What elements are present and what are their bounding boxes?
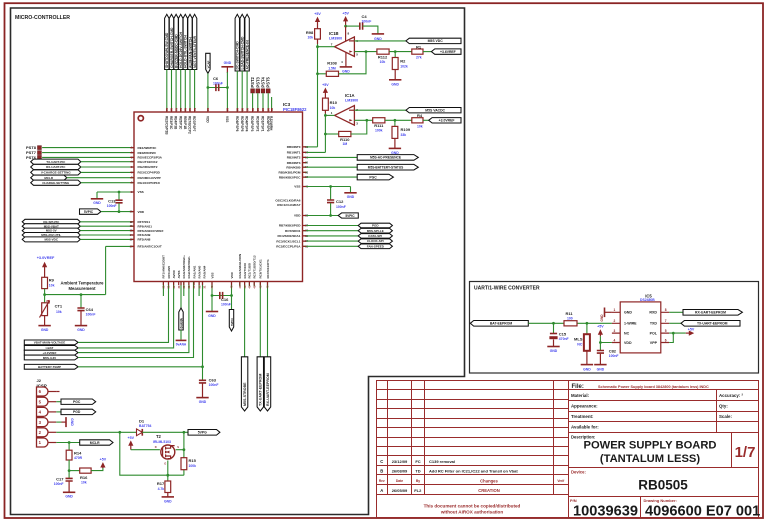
svg-text:C: C: [380, 459, 383, 464]
svg-text:RD3/PSP3: RD3/PSP3: [250, 116, 254, 132]
wire VDD: [600, 336, 612, 350]
svg-text:Available for:: Available for:: [571, 424, 599, 429]
connector pin 5: [37, 397, 49, 406]
svg-text:RJ2/WRH: RJ2/WRH: [269, 116, 273, 131]
svg-text:RA1/AN1: RA1/AN1: [192, 265, 196, 278]
svg-text:RB6/KBI2/PGC: RB6/KBI2/PGC: [279, 175, 301, 179]
wire VSS bottom: [211, 282, 213, 312]
wire: [241, 71, 243, 112]
flag +3.0VREF: [24, 350, 78, 355]
svg-text:RD6/PSP6: RD6/PSP6: [235, 116, 239, 132]
wire: [236, 71, 238, 112]
svg-text:RA5/AN4: RA5/AN4: [203, 265, 207, 278]
wire: [78, 282, 193, 358]
junction: [118, 431, 121, 434]
svg-text:File:: File:: [572, 384, 584, 390]
svg-text:RF1/AN6/C2OUT: RF1/AN6/C2OUT: [162, 255, 166, 279]
junction: [183, 431, 186, 434]
svg-text:BAT-EEPROM: BAT-EEPROM: [490, 322, 513, 326]
svg-text:RE0/RD/P2D: RE0/RD/P2D: [138, 151, 157, 155]
flag 5VPIC right: [303, 215, 339, 217]
wire left branch down: [120, 432, 184, 475]
wire minus input to flag: [354, 40, 406, 42]
svg-text:MICRO-CONTROLLER: MICRO-CONTROLLER: [15, 15, 70, 21]
svg-text:+5V: +5V: [688, 328, 695, 332]
svg-text:GND: GND: [583, 367, 591, 371]
svg-text:102k: 102k: [400, 64, 408, 68]
svg-text:T2: T2: [156, 434, 162, 439]
svg-text:SHUTDOWN-SW-CMD: SHUTDOWN-SW-CMD: [165, 32, 169, 68]
svg-text:R16: R16: [80, 475, 88, 480]
svg-text:CHARGER-SWITCH-CMD: CHARGER-SWITCH-CMD: [170, 27, 174, 68]
svg-text:470nF: 470nF: [559, 337, 569, 341]
flag 5VPG: [188, 430, 220, 436]
svg-text:RC2/ECCP1/P1A: RC2/ECCP1/P1A: [276, 245, 301, 249]
junction: [118, 191, 121, 194]
svg-text:RD2/PSP2: RD2/PSP2: [255, 116, 259, 132]
ground at VSS right: [350, 187, 352, 193]
svg-text:RF0/AN5: RF0/AN5: [167, 266, 171, 279]
svg-text:PIC18F8622: PIC18F8622: [283, 107, 307, 112]
flag DATA-SPI: [303, 235, 359, 237]
flag RX-UART-EEPROM vertical: [264, 357, 270, 411]
svg-text:PGC: PGC: [369, 175, 377, 179]
wire pin6 nc stub: [56, 391, 59, 393]
svg-text:100nF: 100nF: [209, 383, 219, 387]
power +5V arrow right: [686, 332, 690, 334]
svg-text:26/08/09: 26/08/09: [392, 469, 408, 474]
svg-text:VSS: VSS: [138, 190, 144, 194]
svg-text:C63: C63: [209, 377, 217, 382]
ground under R2: [394, 70, 396, 80]
svg-text:G: G: [164, 462, 166, 466]
svg-text:VDD: VDD: [294, 214, 301, 218]
flag FAN-SPEED: [303, 245, 359, 247]
svg-text:MOT-VENTILATEUR: MOT-VENTILATEUR: [193, 35, 197, 68]
resistor R16 10k: [69, 470, 80, 472]
svg-text:MLS: MLS: [574, 336, 583, 341]
svg-text:IC1B: IC1B: [329, 31, 339, 36]
junction: [365, 50, 368, 53]
junction: [211, 294, 214, 297]
ic IC5 DS2480B: [620, 302, 661, 353]
svg-text:S: S: [177, 445, 179, 449]
svg-text:GND: GND: [624, 311, 632, 315]
svg-text:GND: GND: [550, 349, 558, 353]
svg-text:+3.6VREF: +3.6VREF: [440, 50, 456, 54]
svg-text:GND: GND: [597, 367, 605, 371]
ground under C63: [202, 383, 204, 397]
svg-text:This document cannot be copied: This document cannot be copied/distribut…: [424, 503, 521, 508]
flag M5S-26V-UTIL: [22, 233, 80, 238]
capacitor C6 100nF: [208, 87, 228, 89]
flag MCLR: [80, 440, 113, 445]
svg-text:GND: GND: [65, 495, 73, 499]
svg-text:C15: C15: [559, 331, 567, 336]
svg-text:R15: R15: [189, 458, 197, 463]
svg-text:RX-UART-EEPROM: RX-UART-EEPROM: [266, 373, 270, 406]
wire: [78, 282, 202, 367]
svg-text:Date: Date: [396, 479, 403, 483]
svg-text:M5S-VDC: M5S-VDC: [44, 238, 58, 242]
flag RX-UART-EEPROM: [669, 311, 683, 313]
svg-text:Measurement: Measurement: [69, 286, 97, 291]
svg-text:5VPG: 5VPG: [198, 431, 207, 435]
flag M5S-BATTERY-STATUS: [303, 166, 358, 168]
wire minus input to flag: [354, 109, 406, 111]
svg-text:GND: GND: [391, 82, 399, 86]
wire RB1 to comparator IC1A output: [303, 151, 326, 153]
flag VCAP short: [206, 53, 210, 73]
junction: [672, 332, 675, 335]
flag ALIM-FAN-SWITCH vertical: [188, 14, 192, 69]
svg-text:RE6/P1B: RE6/P1B: [183, 116, 187, 130]
wire: [78, 282, 174, 348]
capacitor C12 100nF: [330, 187, 332, 200]
svg-text:R112: R112: [378, 54, 388, 59]
svg-text:FC: FC: [415, 459, 420, 464]
wire: [262, 93, 264, 112]
resistor R9 10k: [42, 277, 48, 288]
svg-text:A: A: [380, 488, 383, 493]
flag M5S-3.3V: [24, 355, 78, 360]
svg-text:100: 100: [567, 316, 573, 320]
svg-text:RG2/RX2/DT2: RG2/RX2/DT2: [138, 165, 158, 169]
svg-text:V-CHARGE-SETTING: V-CHARGE-SETTING: [41, 171, 72, 175]
svg-text:RF3/AN8: RF3/AN8: [138, 238, 151, 242]
svg-text:RE4/P3B: RE4/P3B: [174, 116, 178, 130]
svg-text:AC-PRESENCE-IN: AC-PRESENCE-IN: [246, 40, 250, 70]
svg-text:+3.0VREF: +3.0VREF: [439, 119, 455, 123]
svg-text:2: 2: [614, 319, 616, 323]
flag TX-UART-EEPROM: [669, 322, 681, 324]
svg-text:RF4/AN9: RF4/AN9: [138, 233, 151, 237]
svg-text:RF7/SS1: RF7/SS1: [138, 220, 151, 224]
svg-text:RG4/CCP5/P1D: RG4/CCP5/P1D: [138, 181, 161, 185]
wire right branch through R15: [183, 432, 185, 475]
svg-text:Appearance:: Appearance:: [571, 403, 598, 408]
svg-text:DS2480B: DS2480B: [640, 298, 655, 302]
flag PGD at pin4: [56, 411, 61, 413]
svg-text:Rev: Rev: [379, 479, 385, 483]
svg-text:POL: POL: [650, 332, 658, 336]
capacitor C15 470nF polarized: [553, 323, 555, 333]
svg-text:VDD: VDD: [138, 210, 145, 214]
flag VBAT-VOLTAGE: [24, 340, 78, 345]
svg-text:RC7/RX1/DT1: RC7/RX1/DT1: [266, 259, 270, 279]
svg-text:GND: GND: [41, 328, 49, 332]
svg-text:10k: 10k: [49, 284, 55, 288]
svg-text:4: 4: [614, 338, 616, 342]
svg-text:LM3900: LM3900: [329, 36, 342, 40]
varistor MLS NC: [586, 323, 588, 334]
svg-text:M5S-AC-PRESENCE: M5S-AC-PRESENCE: [370, 156, 401, 160]
junction: [183, 448, 186, 451]
svg-text:+5V: +5V: [342, 11, 349, 15]
junction: [226, 86, 229, 89]
svg-text:R14: R14: [74, 450, 82, 455]
junction: [316, 45, 319, 48]
capacitor C16 100nF: [212, 295, 232, 297]
junction: [329, 185, 332, 188]
ground under C64: [80, 311, 82, 325]
wire: [184, 70, 186, 113]
svg-text:10039639: 10039639: [573, 503, 638, 519]
svg-text:TX-UART-EEPROM: TX-UART-EEPROM: [697, 322, 728, 326]
svg-text:C6: C6: [213, 76, 219, 81]
wire: [78, 282, 189, 353]
svg-text:+5V: +5V: [314, 12, 321, 16]
wire: [423, 119, 429, 121]
svg-text:100nF: 100nF: [213, 82, 223, 86]
svg-text:B: B: [380, 469, 383, 474]
svg-text:RE1/WR/P2C: RE1/WR/P2C: [138, 146, 158, 150]
flag M5S-5V: [22, 228, 80, 233]
svg-text:5VPIC: 5VPIC: [230, 318, 234, 326]
svg-text:CT1: CT1: [55, 303, 63, 308]
svg-text:VSS: VSS: [210, 272, 214, 278]
svg-text:TX-UART-EEPROM: TX-UART-EEPROM: [259, 374, 263, 406]
micro-controller section box: [11, 8, 465, 515]
capacitor C64 100nF: [80, 295, 82, 308]
junction: [329, 214, 332, 217]
svg-text:D: D: [155, 445, 157, 449]
wire: [267, 93, 269, 112]
power +5V for IC1B pin 8: [343, 16, 348, 21]
svg-text:GND: GND: [208, 314, 216, 318]
flag TX-UART-PIC: [31, 159, 81, 164]
resistor R109 33k: [394, 120, 396, 126]
svg-text:TX-UART-PIC: TX-UART-PIC: [46, 160, 66, 164]
capacitor C13 100nF: [118, 192, 120, 200]
svg-text:GND: GND: [164, 499, 172, 503]
svg-text:C17: C17: [56, 477, 64, 482]
svg-text:VPP: VPP: [650, 341, 658, 345]
flag HOLD-UTIL-SWITCH vertical: [183, 14, 187, 69]
flag BUZZER-MSDC-CMD vertical: [174, 14, 178, 69]
ic U-IC3 PIC18F8622 body: [134, 112, 303, 282]
svg-text:VDD: VDD: [624, 341, 632, 345]
svg-text:VDD: VDD: [230, 271, 234, 278]
svg-text:100nF: 100nF: [86, 313, 96, 317]
svg-text:FL2: FL2: [414, 488, 422, 493]
svg-text:AVSS: AVSS: [177, 271, 181, 279]
wire: [244, 282, 246, 357]
svg-text:10k: 10k: [81, 481, 87, 485]
svg-text:+3.0VREF: +3.0VREF: [37, 256, 55, 260]
junction: [324, 114, 327, 117]
svg-text:RF5/AN10/CVREF: RF5/AN10/CVREF: [138, 229, 164, 233]
svg-text:Add RC Filter on IC21,IC22 and: Add RC Filter on IC21,IC22 and Transil o…: [429, 469, 518, 474]
svg-text:R111: R111: [374, 123, 384, 128]
svg-text:LM3900: LM3900: [345, 99, 358, 103]
svg-text:Verif: Verif: [557, 479, 565, 483]
flag BAT-EEPROM: [470, 321, 528, 327]
resistor R1 27k: [412, 49, 423, 54]
junction: [230, 294, 233, 297]
wire comparator output node: [317, 39, 319, 44]
flag I-BAT: [24, 346, 78, 351]
wire stubs: [240, 282, 254, 287]
flag CHARGER-SWITCH-CMD vertical: [169, 14, 173, 69]
svg-text:(TANTALUM LESS): (TANTALUM LESS): [600, 453, 701, 465]
svg-text:100nF: 100nF: [336, 205, 346, 209]
wire stubs: [163, 282, 199, 297]
svg-text:R4: R4: [417, 113, 423, 118]
wire: [175, 70, 177, 113]
svg-text:1.5M: 1.5M: [328, 66, 336, 70]
wire: [271, 97, 273, 112]
svg-text:RB4/KBI0: RB4/KBI0: [286, 165, 300, 169]
svg-text:POWER SUPPLY BOARD: POWER SUPPLY BOARD: [583, 440, 716, 452]
svg-text:VSS: VSS: [294, 185, 300, 189]
flag CHARGE-SETTING: [31, 180, 81, 185]
ic IC3 pin stubs: [130, 108, 306, 285]
wire: [246, 71, 248, 112]
svg-text:RX-UART-EEPROM: RX-UART-EEPROM: [695, 311, 726, 315]
svg-text:Changes: Changes: [480, 478, 498, 483]
svg-text:GND: GND: [347, 195, 355, 199]
svg-text:TXD: TXD: [650, 322, 658, 326]
svg-text:RD4/PSP4: RD4/PSP4: [245, 116, 249, 132]
svg-text:RXD: RXD: [649, 311, 657, 315]
svg-text:PGC: PGC: [73, 400, 81, 404]
resistor R2 102k: [394, 52, 396, 58]
svg-text:RA4/AN4/HLVDIN: RA4/AN4/HLVDIN: [238, 254, 242, 279]
flag V-CHARGE-SETTING: [31, 170, 81, 175]
svg-text:M5S-3.3V: M5S-3.3V: [43, 356, 56, 360]
svg-text:Device:: Device:: [571, 469, 586, 474]
ground at pin3 (rotated): [56, 421, 61, 423]
svg-text:RD0/PSP0: RD0/PSP0: [266, 116, 270, 132]
svg-text:R2: R2: [400, 59, 406, 64]
svg-text:RC6/TX1/CK1: RC6/TX1/CK1: [259, 259, 263, 279]
svg-text:OSC1/CLKI/RA7: OSC1/CLKI/RA7: [277, 203, 301, 207]
svg-text:PST5: PST5: [266, 76, 271, 87]
junction: [43, 293, 46, 296]
wire T2 drain to node: [176, 449, 184, 451]
wire T2 source down: [167, 461, 169, 476]
wire VDD bottom: [231, 282, 233, 310]
flag PGC at pin5: [56, 401, 61, 403]
svg-text:I-BAT: I-BAT: [46, 346, 54, 350]
connector pin 2: [37, 428, 49, 437]
resistor R98 10k: [315, 29, 321, 39]
svg-text:RA0/AN0: RA0/AN0: [197, 265, 201, 278]
svg-text:23/12/09: 23/12/09: [392, 459, 408, 464]
svg-text:RG1/TX2/CK2: RG1/TX2/CK2: [138, 160, 158, 164]
wire output node IC1A: [324, 110, 326, 113]
svg-text:C64: C64: [86, 307, 94, 312]
svg-text:RC4/SDI1/SDA1: RC4/SDI1/SDA1: [277, 234, 300, 238]
svg-text:P/N: P/N: [570, 498, 577, 503]
svg-text:M5S-STROBE: M5S-STROBE: [243, 382, 247, 406]
wire: [171, 70, 173, 113]
svg-text:RF6/AN11: RF6/AN11: [138, 224, 153, 228]
wire feedback to plus input: [339, 52, 367, 74]
wire plus input node: [354, 119, 372, 121]
svg-text:+5V: +5V: [597, 325, 604, 329]
flag M5S-VDC: [22, 237, 80, 242]
wire to +5V: [91, 467, 103, 470]
svg-text:GND: GND: [224, 61, 232, 65]
svg-text:HOLD-DC26V-SWITCH: HOLD-DC26V-SWITCH: [179, 31, 183, 68]
wire divider node: [45, 289, 106, 295]
svg-text:FAN-SPEED: FAN-SPEED: [367, 244, 385, 248]
wire op-amp output: [325, 114, 334, 116]
wire stub RB3: [303, 162, 308, 164]
ground under R17: [167, 493, 169, 497]
junction: [344, 25, 347, 28]
flag M5S-STROBE vertical: [241, 357, 247, 411]
capacitor C63 100nF: [202, 367, 204, 380]
svg-text:0vANA: 0vANA: [179, 317, 183, 328]
svg-text:10k: 10k: [417, 124, 423, 128]
flag M5S-VDC: [406, 38, 461, 43]
svg-text:BATTERY-TEMP: BATTERY-TEMP: [38, 365, 61, 369]
svg-text:DC-SWITCH-CMD: DC-SWITCH-CMD: [236, 41, 240, 70]
svg-text:M5S-BATTERY-STATUS: M5S-BATTERY-STATUS: [368, 166, 403, 170]
svg-text:GND: GND: [93, 201, 101, 205]
title block: [377, 381, 759, 518]
svg-text:C12: C12: [336, 199, 344, 204]
svg-text:Accuracy: ²: Accuracy: ²: [719, 393, 743, 398]
junction: [394, 50, 397, 53]
wire: [207, 73, 209, 112]
svg-text:PGD: PGD: [372, 224, 379, 228]
resistor R15 100k: [181, 458, 187, 470]
svg-text:CLOCK-SPI: CLOCK-SPI: [367, 239, 384, 243]
ground under C15: [553, 339, 555, 346]
svg-text:RG3/CCP4/P3D: RG3/CCP4/P3D: [138, 171, 161, 175]
svg-text:3: 3: [614, 329, 616, 333]
svg-text:10k: 10k: [330, 106, 336, 110]
wire: [259, 282, 261, 357]
wire: [189, 70, 191, 113]
svg-text:RB1/INT1: RB1/INT1: [287, 151, 301, 155]
svg-text:M5S-SPI-LE: M5S-SPI-LE: [367, 229, 384, 233]
svg-text:4096600 E07 001: 4096600 E07 001: [645, 504, 760, 520]
svg-text:D1: D1: [139, 418, 145, 423]
svg-text:M5S VDC: M5S VDC: [428, 39, 444, 43]
svg-text:R109: R109: [401, 127, 411, 132]
power +5V at R16: [100, 462, 105, 467]
svg-text:R9: R9: [49, 278, 55, 283]
svg-text:RB5/KBI1/PGM: RB5/KBI1/PGM: [278, 171, 300, 175]
svg-text:RE3/P3C: RE3/P3C: [169, 116, 173, 130]
flag DC-SWITCH-CMD vertical: [235, 14, 239, 71]
ground at IC5 pin1 (rotated): [604, 308, 606, 318]
svg-text:RD1/PSP1: RD1/PSP1: [261, 116, 265, 132]
svg-text:10k: 10k: [56, 310, 62, 314]
svg-text:DATA-SPI: DATA-SPI: [368, 234, 382, 238]
wire pin2 net: [56, 431, 136, 433]
svg-text:10k: 10k: [380, 60, 386, 64]
svg-text:RD7/PSP7: RD7/PSP7: [192, 116, 196, 132]
connector pin 4: [37, 407, 49, 416]
junction: [365, 119, 368, 122]
flag 5VPIC (VDD pin 10): [80, 209, 101, 214]
wire diode to 5VPG: [142, 431, 188, 433]
svg-text:By: By: [416, 479, 420, 483]
svg-text:RE5/P1C: RE5/P1C: [178, 116, 182, 130]
ground 0vANA flag: [180, 282, 182, 309]
resistor R17 4.7k: [167, 475, 169, 481]
wire op-amp output: [318, 46, 335, 48]
flag +3.0VREF: [429, 118, 461, 123]
wire feedback to plus input: [351, 120, 367, 134]
wire pin1 to MCLR: [56, 442, 79, 444]
